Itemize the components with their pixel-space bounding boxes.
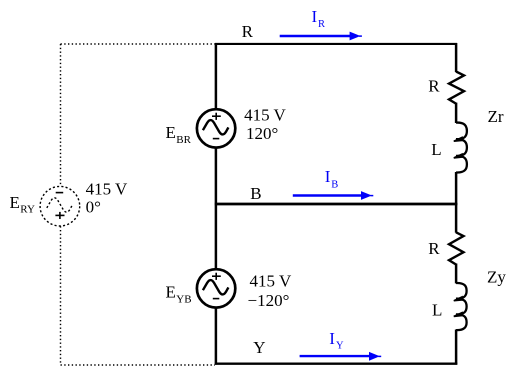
dotted wire: left vertical lower segment xyxy=(60,226,62,365)
svg-text:R: R xyxy=(428,239,440,258)
wire: middle horizontal B line xyxy=(215,203,457,206)
svg-text:415 V: 415 V xyxy=(250,272,292,291)
source E_BR sine wave xyxy=(203,120,229,134)
wire: left rail middle segment xyxy=(215,148,218,270)
wire: below lower L xyxy=(455,330,458,365)
wire: below upper L xyxy=(455,172,458,205)
inductor upper curl 2 xyxy=(454,154,462,158)
wire: between lower R and L xyxy=(455,264,458,284)
current arrow I_Y xyxy=(300,355,371,357)
svg-text:415 V: 415 V xyxy=(86,180,128,199)
dotted wire: top horizontal xyxy=(61,43,216,45)
svg-text:B: B xyxy=(250,184,261,203)
svg-text:−120°: −120° xyxy=(248,291,290,310)
svg-text:Zy: Zy xyxy=(487,268,506,287)
inductor L (lower, Zy branch) xyxy=(456,283,467,330)
svg-text:BR: BR xyxy=(176,134,191,146)
svg-text:B: B xyxy=(331,179,338,190)
inductor L (upper, Zr branch) xyxy=(456,123,467,173)
svg-text:E: E xyxy=(10,193,20,212)
svg-text:415 V: 415 V xyxy=(244,106,286,125)
svg-text:L: L xyxy=(432,300,442,319)
svg-text:120°: 120° xyxy=(246,124,278,143)
svg-text:E: E xyxy=(166,123,176,142)
phantom source E_RY plus sign xyxy=(55,212,64,219)
wire: bottom horizontal Y line xyxy=(215,363,457,365)
source E_YB minus sign xyxy=(213,298,220,300)
wire: right rail top segment xyxy=(455,43,458,72)
svg-text:E: E xyxy=(166,283,176,302)
svg-text:R: R xyxy=(318,19,325,30)
inductor lower curl 1 xyxy=(454,297,462,301)
svg-text:L: L xyxy=(431,140,441,159)
dotted wire: left vertical upper segment xyxy=(60,44,62,186)
svg-text:R: R xyxy=(428,77,440,96)
source E_YB circle xyxy=(197,269,235,307)
resistor R (upper, Zr branch) xyxy=(449,72,464,104)
svg-text:I: I xyxy=(325,167,331,186)
wire: right rail below B junction xyxy=(455,203,458,233)
resistor R (lower, Zy branch) xyxy=(449,232,464,264)
current arrow I_B xyxy=(293,194,363,196)
wire: between upper R and L xyxy=(455,103,458,123)
wire: left rail top segment xyxy=(215,43,218,110)
svg-text:R: R xyxy=(242,22,254,41)
current arrow I_R xyxy=(280,35,352,37)
dotted wire: bottom horizontal xyxy=(61,364,216,366)
svg-text:I: I xyxy=(312,7,318,26)
inductor upper curl 1 xyxy=(454,137,462,141)
source E_BR plus sign xyxy=(212,113,221,120)
source E_YB sine wave xyxy=(203,280,229,294)
svg-text:YB: YB xyxy=(176,294,191,306)
phantom source E_RY dotted circle xyxy=(40,186,80,226)
svg-text:Zr: Zr xyxy=(488,107,504,126)
wire: left rail bottom segment xyxy=(215,308,218,365)
svg-text:RY: RY xyxy=(20,204,35,216)
inductor lower curl 2 xyxy=(454,313,462,317)
source E_YB plus sign xyxy=(212,273,221,280)
source E_BR minus sign xyxy=(213,138,220,140)
svg-text:I: I xyxy=(329,329,335,348)
svg-text:Y: Y xyxy=(253,338,265,357)
svg-text:0°: 0° xyxy=(86,197,101,216)
phantom source E_RY dotted sine wave xyxy=(47,198,73,212)
phantom source E_RY minus sign xyxy=(56,192,64,194)
svg-text:Y: Y xyxy=(336,341,344,352)
wire: top horizontal R line xyxy=(215,43,457,45)
source E_BR circle xyxy=(197,109,235,147)
